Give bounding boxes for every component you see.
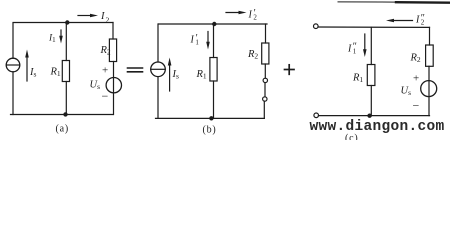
wire: bottom wire of (b) — [156, 117, 265, 119]
node: bottom junction dot (c) — [367, 114, 371, 118]
node: bottom junction dot (b) — [209, 116, 213, 120]
current source Is (a): circle with horizontal bar — [6, 58, 20, 72]
wire: bottom wire of (c) — [319, 115, 430, 117]
svg-text:−: − — [102, 89, 109, 103]
svg-text:−: − — [413, 99, 420, 113]
terminal: bottom-left open circle (c) — [314, 113, 319, 118]
wire: left branch lower segment (a) — [12, 72, 14, 115]
wire: R1 branch upper segment (a) — [65, 23, 67, 61]
svg-text:R2: R2 — [410, 53, 421, 65]
svg-text:Is: Is — [29, 67, 37, 79]
svg-text:R1: R1 — [352, 73, 363, 85]
wire: R1 branch upper segment (b) — [213, 24, 215, 58]
terminal: lower open circle (b) — [263, 97, 267, 101]
svg-text:R1: R1 — [50, 67, 61, 79]
svg-text:Is: Is — [172, 69, 180, 81]
current source Is (b): circle with horizontal bar — [151, 62, 166, 77]
svg-text:Us: Us — [90, 80, 101, 92]
wire: R1 branch upper segment (c) — [370, 27, 372, 64]
svg-text:www.diangon.com: www.diangon.com — [310, 119, 445, 135]
resistor R2 (c) — [426, 45, 434, 66]
svg-text:1: 1 — [353, 48, 357, 56]
arrow: Is current direction (b), pointing up — [169, 63, 171, 91]
svg-text:+: + — [413, 73, 419, 85]
svg-text:I: I — [347, 44, 352, 55]
wire: segment below lower terminal (b) — [263, 101, 265, 118]
wire: top wire of (a) — [14, 22, 113, 24]
svg-text:R1: R1 — [196, 69, 207, 81]
wire: left branch upper segment (a) — [12, 23, 14, 59]
arrow: I2'' arrow on top wire (c), pointing left — [392, 20, 413, 22]
resistor R1 (b) — [210, 58, 217, 82]
wire: right branch upper segment (a) — [112, 23, 114, 40]
svg-text:I: I — [248, 10, 253, 21]
svg-text:2: 2 — [253, 14, 257, 22]
node: top junction dot (b) — [212, 22, 216, 26]
svg-text:Us: Us — [401, 86, 412, 98]
arrow: I2' arrow on top wire (b), pointing right — [226, 12, 241, 14]
resistor R2 (b) — [262, 43, 269, 64]
wire: R1 branch lower segment (b) — [213, 81, 215, 118]
wire: right branch through voltage source (c) — [428, 66, 430, 115]
arrow: Is current direction (a), pointing up — [26, 56, 28, 81]
resistor R1 (a) — [62, 61, 69, 82]
wire: top wire of (b) — [159, 23, 268, 25]
arrow: I1 down arrow (a) — [60, 30, 62, 39]
svg-text:+: + — [102, 65, 108, 77]
svg-text:(a): (a) — [56, 124, 70, 135]
svg-text:2: 2 — [106, 15, 110, 24]
wire: R1 branch lower segment (a) — [65, 82, 67, 115]
svg-text:1: 1 — [195, 39, 199, 47]
wire: right branch through voltage source (a) — [113, 62, 115, 115]
resistor R2 (a) — [109, 39, 116, 62]
arrow: I2 arrow on top wire (a), pointing right — [78, 15, 92, 17]
svg-text:I: I — [415, 15, 420, 26]
voltage source Us (a): circle, wire passes through — [106, 78, 121, 93]
wire: left branch lower segment (b) — [157, 77, 159, 119]
node: top junction dot (a) — [65, 20, 69, 24]
svg-text:(b): (b) — [203, 125, 217, 136]
node: bottom junction dot (a) — [63, 112, 67, 116]
svg-text:R2: R2 — [100, 45, 111, 57]
wire: R1 branch lower segment (c) — [370, 86, 372, 116]
terminal: top-left open circle (c) — [314, 24, 319, 29]
svg-text:I: I — [100, 11, 105, 22]
svg-text:2: 2 — [421, 19, 425, 27]
svg-text:I1: I1 — [48, 34, 56, 45]
wire: top wire of (c) — [318, 26, 429, 28]
wire: left branch upper segment (b) — [157, 24, 159, 62]
wire: right branch upper segment (b) — [265, 24, 267, 43]
voltage source Us (c): circle, wire passes through — [421, 81, 437, 97]
wire: segment between terminals (b) — [264, 83, 266, 97]
plus sign between (b) and (c) — [285, 65, 295, 75]
arrow: I1' down arrow (b) — [207, 32, 209, 45]
arrow: I1'' down arrow (c) — [364, 34, 366, 52]
wire: right branch upper segment (c) — [429, 27, 431, 45]
wire: segment below R2 (b) — [264, 64, 266, 78]
svg-text:R2: R2 — [247, 49, 258, 61]
artifact: dark line at top-right edge — [338, 1, 398, 3]
svg-text:I: I — [190, 35, 195, 46]
resistor R1 (c) — [367, 65, 375, 86]
terminal: upper open circle (b) — [263, 78, 267, 82]
equals sign between (a) and (b) — [128, 68, 143, 72]
wire: bottom wire of (a) — [11, 114, 114, 116]
